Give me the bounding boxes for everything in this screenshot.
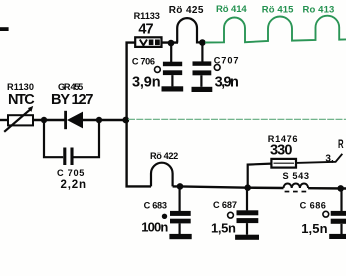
svg-text:GR 455: GR 455 (58, 82, 83, 92)
svg-text:47: 47 (138, 22, 153, 38)
svg-text:BY 127: BY 127 (51, 92, 94, 108)
svg-text:R1133: R1133 (134, 11, 160, 21)
svg-text:100n: 100n (141, 219, 168, 234)
svg-text:330: 330 (270, 143, 292, 159)
svg-text:C 686: C 686 (300, 201, 326, 211)
svg-text:Ro 413: Ro 413 (303, 5, 335, 16)
svg-text:1,5n: 1,5n (211, 221, 236, 236)
svg-text:Rö 425: Rö 425 (169, 5, 204, 16)
svg-text:C 705: C 705 (57, 168, 84, 178)
svg-text:1,5n: 1,5n (301, 221, 327, 236)
svg-text:Rö 415: Rö 415 (262, 5, 294, 16)
svg-text:S 543: S 543 (283, 171, 310, 181)
svg-text:3,: 3, (325, 154, 334, 165)
svg-text:Rö 422: Rö 422 (150, 151, 178, 161)
svg-text:3,9n: 3,9n (132, 75, 161, 91)
svg-text:2,2n: 2,2n (61, 179, 87, 191)
svg-text:R1130: R1130 (7, 82, 34, 92)
svg-text:Rö 414: Rö 414 (216, 4, 247, 15)
svg-text:NTC: NTC (8, 92, 35, 108)
svg-text:R: R (338, 137, 344, 151)
svg-text:C 687: C 687 (213, 200, 237, 210)
svg-text:C 706: C 706 (132, 57, 155, 67)
svg-text:3,9n: 3,9n (215, 75, 239, 91)
svg-text:C 683: C 683 (144, 201, 167, 211)
